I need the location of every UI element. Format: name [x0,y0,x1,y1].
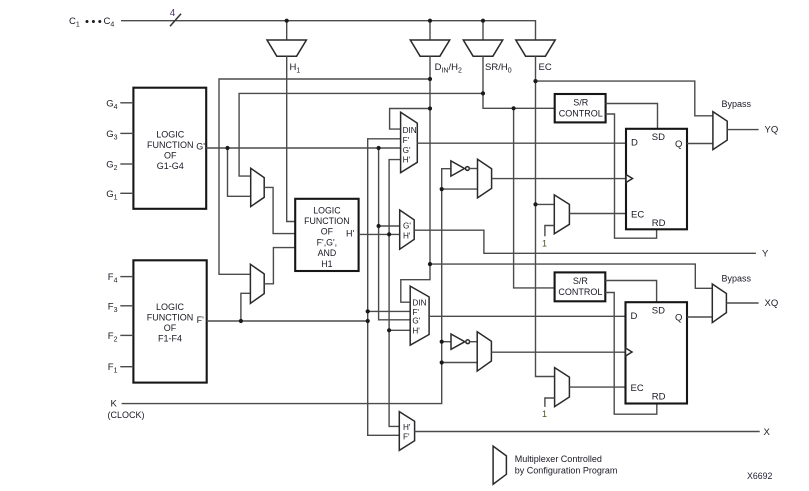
svg-text:by Configuration Program: by Configuration Program [515,466,618,476]
junction G' at feedback [377,146,381,150]
svg-text:CONTROL: CONTROL [558,287,602,297]
wire C bus [121,21,536,40]
svg-text:G1-G4: G1-G4 [157,161,184,171]
svg-text:EC: EC [631,209,644,220]
svg-text:H': H' [346,229,354,239]
svg-text:H': H' [412,327,420,336]
wire G' line [206,147,400,149]
mux G2 select [251,168,265,206]
label FF2 pins [631,306,683,403]
junction G' at G2 branch [225,146,229,150]
svg-text:4: 4 [170,8,176,19]
svg-text:RD: RD [652,392,666,403]
FF2 clock triangle [626,348,633,356]
svg-text:Q: Q [675,139,682,150]
wire G2 mux out to H box [264,187,295,233]
bus width slash [170,14,181,26]
wire G' branch to G2 mux [228,148,251,196]
svg-text:XQ: XQ [765,298,779,309]
wire F' branch to F2 mux [241,293,251,321]
svg-text:Bypass: Bypass [722,99,752,109]
wire lower EC mux out to FF2 [569,386,625,388]
wire EC branch to upper bypass mux [536,81,713,116]
label upper DIN mux text [403,126,417,164]
wire upper DIN mux out to FF1 D [417,142,626,144]
wire K branch to upper clock mux [442,188,478,190]
legend mux symbol [493,446,506,484]
label lower DIN mux text [412,299,426,336]
mux SR/H0 [463,40,502,56]
junction SR/H0 y93 [481,91,485,95]
svg-text:Bypass: Bypass [722,274,752,284]
wire G' feedback vertical to lower DIN mux [379,148,411,320]
wire H' branch to lower DIN mux [389,329,410,331]
wire XQ output [726,302,758,304]
pin F2 [108,331,134,344]
wire DIN/H2 branch to F2 mux [219,79,430,274]
junction K to lower inverter [440,340,444,344]
svg-text:CONTROL: CONTROL [559,109,603,119]
wire lower DIN mux out to FF2 D [429,315,625,317]
junction bus H1 [285,19,289,23]
wire H' feedback vertical down to HF mux [389,234,399,426]
svg-text:H1: H1 [321,259,332,269]
junction F' at F2 branch [239,319,243,323]
junction SR line to lower [511,106,515,110]
wire DIN/H2 down to lower DIN mux [401,56,430,302]
svg-text:FUNCTION: FUNCTION [147,313,194,323]
label S/R control lower [558,276,602,297]
svg-text:LOGIC: LOGIC [156,129,185,139]
mux H1 [267,40,306,56]
junction DIN/H2 y79 [428,77,432,81]
wire SR/H0 down to S/R control 1 [483,56,555,108]
svg-text:OF: OF [164,323,177,333]
logic function box F' G' H1 [295,199,358,271]
mux upper EC [554,195,569,234]
pin G4 [106,98,133,111]
svg-text:F': F' [412,308,419,317]
wire EC down to lower EC mux [536,56,555,376]
logic function box G1-G4 [133,88,206,209]
wire H' line to GH mux [359,233,400,235]
mux G' H' (Y select) [400,210,415,249]
pin G1 [106,189,133,202]
pin F3 [108,301,134,314]
pin F4 [108,272,134,285]
svg-text:LOGIC: LOGIC [156,302,185,312]
junction DIN/H2 y264 [428,262,432,266]
wire YQ output [727,129,758,131]
mux bypass lower [712,284,726,323]
wire F' feedback vertical up to upper DIN mux [368,139,401,321]
wire SD1 [606,104,658,129]
svg-text:F',G',: F',G', [317,237,337,247]
wire SR/H0 branch to S/R control 2 [514,108,555,288]
wire SR/H0 branch to G2 mux [239,93,483,176]
svg-text:SD: SD [652,306,665,317]
logic function box F1-F4 [133,260,206,382]
svg-text:SD: SD [652,132,665,143]
junction K to upper clock mux [440,187,444,191]
junction K to lower clock mux [440,360,444,364]
svg-text:DIN: DIN [412,299,426,308]
wire DIN/H2 bus stub [429,21,431,40]
svg-text:SR/H0: SR/H0 [485,62,512,75]
svg-text:Y: Y [762,249,769,260]
wire RD2 [605,293,657,415]
mux F2 select [250,264,264,303]
svg-text:G': G' [403,222,411,231]
svg-text:G': G' [196,142,205,152]
wire F2 mux out to H box [264,248,295,284]
pin G3 [106,129,133,142]
junction G' to GH mux [377,224,381,228]
junction H' to lower DIN mux [387,328,391,332]
wire Y output [414,230,756,253]
mux DIN/H2 [410,40,449,56]
junction F' to lower DIN mux [366,309,370,313]
wire Q1 to bypass [687,143,713,145]
inverter lower clock [451,334,477,349]
svg-text:H': H' [403,155,411,164]
wire H' feedback vertical up to upper DIN mux [389,160,401,235]
svg-text:1: 1 [542,409,547,419]
svg-text:S/R: S/R [573,276,589,286]
svg-text:Multiplexer Controlled: Multiplexer Controlled [515,454,602,464]
svg-text:EC: EC [539,62,552,73]
svg-text:FUNCTION: FUNCTION [304,216,349,226]
junction DIN/H2 y108 [428,106,432,110]
junction H' at feedback [387,232,391,236]
wire upper EC constant stub [545,226,554,237]
wire H1 bus stub [286,21,288,40]
svg-text:YQ: YQ [765,125,779,136]
wire EC branch to upper EC mux [536,203,555,205]
svg-text:D: D [631,311,638,322]
wire H1 down to H box [287,56,296,221]
wire F' line [207,320,368,322]
wire SD2 [605,281,656,303]
junction F' at feedback [366,319,370,323]
svg-text:RD: RD [652,218,666,229]
svg-text:DIN: DIN [403,126,417,135]
svg-text:AND: AND [318,248,337,258]
svg-text:X: X [764,427,771,438]
wire upper clock mux out to FF1 [492,178,626,180]
svg-text:G': G' [403,146,411,155]
svg-text:F': F' [197,315,204,325]
svg-text:F1-F4: F1-F4 [158,334,182,344]
svg-text:Q: Q [675,312,682,323]
wire K branch to lower clock mux [442,362,478,364]
pin F1 [108,362,134,375]
mux DIN F' G' H' upper [401,112,418,172]
wire upper EC mux out to FF1 [569,213,626,215]
wire F' branch to lower DIN mux [368,310,411,312]
mux H' F' (X select) [399,412,414,451]
svg-text:D: D [631,138,638,149]
svg-text:S/R: S/R [573,97,589,107]
wire G' branch to GH mux [379,225,400,227]
svg-text:LOGIC: LOGIC [313,205,341,215]
mux lower EC [555,368,570,407]
label HF mux text [403,423,411,442]
label FF1 pins [631,132,682,229]
wire K branch to lower inverter [442,341,451,343]
wire F' feedback vertical down to HF mux [368,321,400,435]
svg-text:K: K [111,399,118,410]
node C1...C4 label [69,16,114,29]
wire lower EC constant stub [545,398,555,407]
svg-text:H': H' [403,232,411,241]
flip-flop FF2 [626,302,688,403]
wire DIN/H2 branch to lower bypass mux [430,264,712,288]
svg-text:G': G' [412,317,420,326]
label S/R control upper [559,97,603,118]
wire K clock line [122,169,451,404]
mux EC [516,40,555,56]
flip-flop FF1 [626,129,687,230]
S/R control box lower [555,272,606,301]
wire X output [415,431,760,433]
label GH mux text [403,222,411,241]
wire DIN/H2 branch to upper DIN mux [390,109,430,130]
svg-text:(CLOCK): (CLOCK) [108,410,145,420]
junction bus DIN/H2 [428,19,432,23]
mux lower clock [477,332,491,371]
mux upper clock [478,159,492,198]
svg-text:1: 1 [542,239,547,249]
legend text [515,454,618,476]
wire Q2 to bypass [687,316,712,318]
svg-text:DIN/H2: DIN/H2 [435,62,462,75]
svg-text:EC: EC [631,383,644,394]
junction EC y204 [533,202,537,206]
svg-text:X6692: X6692 [747,471,773,481]
FF1 clock triangle [626,175,633,183]
wire RD1 [606,114,657,238]
label G logic text [147,129,194,171]
svg-text:FUNCTION: FUNCTION [147,140,194,150]
wire SR/H0 bus stub [482,21,484,40]
svg-text:F': F' [403,136,410,145]
S/R control box upper [555,94,606,122]
label F logic text [147,302,194,344]
svg-text:OF: OF [321,227,334,237]
wire lower clock mux out to FF2 [491,351,625,353]
label H logic text [304,205,349,268]
svg-text:H': H' [403,423,411,432]
svg-text:OF: OF [164,151,177,161]
mux DIN F' G' H' lower [410,286,429,345]
svg-text:F': F' [403,433,410,442]
mux bypass upper [713,112,727,150]
junction bus SR/H0 [481,19,485,23]
junction EC y81 [533,79,537,83]
pin G2 [106,160,133,173]
inverter upper clock [451,161,478,176]
